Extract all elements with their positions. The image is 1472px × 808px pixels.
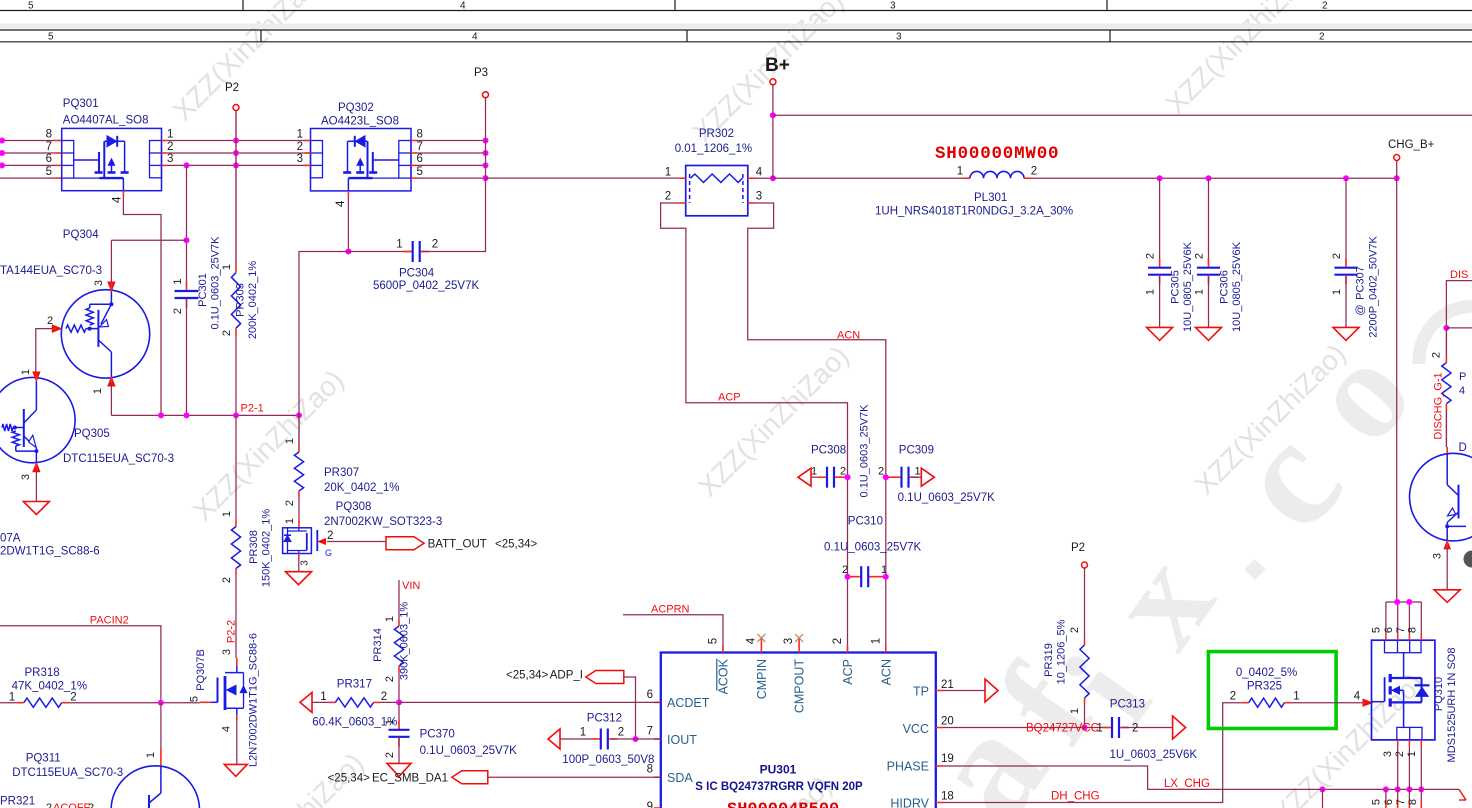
- svg-text:2: 2: [384, 752, 396, 758]
- svg-text:6: 6: [417, 153, 423, 165]
- ground PC307: [1333, 327, 1359, 340]
- svg-text:2: 2: [1431, 352, 1443, 358]
- LX bus junction dots: [1320, 786, 1326, 792]
- svg-text:2: 2: [1145, 253, 1157, 259]
- junction dot IOUT: [633, 736, 639, 742]
- wires left of PQ301: [0, 140, 55, 142]
- arrow into PQ310: [1363, 699, 1372, 706]
- PQ310 top stubs: [1385, 634, 1387, 640]
- svg-text:1: 1: [1406, 751, 1418, 757]
- svg-text:1: 1: [811, 466, 817, 478]
- wire to ground: [1446, 548, 1448, 590]
- P2 vertical wire: [235, 111, 237, 265]
- svg-text:DISCHG_G-1: DISCHG_G-1: [1433, 372, 1445, 439]
- svg-text:L2N7002DW1T1G_SC88-6: L2N7002DW1T1G_SC88-6: [248, 633, 260, 767]
- flag EC_SMB_DA1: [452, 771, 488, 784]
- svg-text:1: 1: [221, 511, 233, 517]
- svg-text:6: 6: [46, 153, 52, 165]
- svg-text:PR317: PR317: [337, 679, 372, 691]
- wire PL301 to CHG_B+: [1031, 177, 1397, 179]
- PQ302 right stubs: [411, 140, 417, 142]
- svg-text:PR308: PR308: [248, 530, 260, 564]
- net PACIN2 wire: [0, 626, 161, 703]
- svg-text:3: 3: [896, 32, 902, 43]
- svg-text:B+: B+: [765, 55, 790, 76]
- svg-text:PR325: PR325: [1247, 681, 1282, 693]
- PQ304 pin arrows: [108, 282, 115, 291]
- svg-text:P2: P2: [1071, 542, 1085, 554]
- svg-text:1: 1: [284, 438, 296, 444]
- svg-text:PQ311: PQ311: [26, 753, 61, 765]
- resistor PR303: [235, 265, 237, 273]
- junction dot ACDET node: [396, 699, 402, 705]
- svg-text:AO4407AL_SO8: AO4407AL_SO8: [63, 115, 149, 127]
- svg-text:PL301: PL301: [974, 192, 1007, 204]
- svg-text:2: 2: [47, 315, 53, 327]
- transistor PQ304: [61, 290, 149, 378]
- svg-text:4: 4: [112, 196, 124, 203]
- svg-text:ACOK: ACOK: [717, 658, 731, 694]
- svg-text:5: 5: [48, 32, 54, 43]
- svg-text:EC_SMB_DA1: EC_SMB_DA1: [372, 773, 448, 785]
- svg-text:2: 2: [381, 691, 387, 703]
- resistor PR3xx (cut): [1445, 328, 1447, 356]
- svg-text:1: 1: [870, 638, 882, 644]
- svg-text:2DW1T1G_SC88-6: 2DW1T1G_SC88-6: [0, 546, 100, 558]
- mosfet PQ310: [1372, 640, 1435, 740]
- svg-text:MDS1525URH 1N SO8: MDS1525URH 1N SO8: [1446, 648, 1458, 763]
- wire PQ304 base to PQ305: [36, 329, 53, 373]
- svg-text:8: 8: [417, 128, 423, 140]
- junction dots on P3 line: [483, 138, 489, 144]
- wire right: [1446, 327, 1472, 329]
- svg-text:1: 1: [221, 264, 233, 270]
- svg-text:PR302: PR302: [699, 128, 734, 140]
- svg-text:ACP: ACP: [718, 392, 741, 404]
- svg-text:ADP_I: ADP_I: [550, 670, 583, 682]
- svg-text:3: 3: [221, 649, 233, 655]
- wire PR302 pin3 to ACN (net ACN): [748, 203, 886, 653]
- svg-text:2: 2: [432, 239, 438, 251]
- svg-text:7: 7: [46, 141, 52, 153]
- PR302 pin stubs: [679, 177, 686, 179]
- junction dot VCC node: [1082, 725, 1088, 731]
- svg-text:4: 4: [746, 637, 758, 644]
- flag BATT_OUT: [386, 537, 424, 550]
- wire gate to BATT_OUT flag: [327, 541, 386, 543]
- wire TP pin21: [943, 690, 985, 692]
- svg-text:PC370: PC370: [420, 729, 455, 741]
- wire PR302 to PL301: [773, 177, 963, 179]
- CHG_B+ rail down to PQ310: [1396, 161, 1398, 602]
- svg-text:5: 5: [188, 696, 200, 702]
- junction dots on P2 line: [233, 138, 239, 144]
- svg-text:2: 2: [1322, 1, 1328, 12]
- svg-text:2: 2: [221, 577, 233, 583]
- svg-text:7: 7: [1395, 627, 1407, 633]
- svg-text:5: 5: [28, 1, 34, 12]
- green highlight box: [1208, 652, 1336, 729]
- svg-text:150K_0402_1%: 150K_0402_1%: [261, 509, 273, 588]
- inductor PL301: [963, 177, 970, 179]
- mosfet PQ302: [311, 129, 412, 191]
- svg-text:SH00000MW00: SH00000MW00: [935, 144, 1059, 164]
- svg-text:3: 3: [297, 153, 303, 165]
- wire SDA: [487, 776, 661, 778]
- net P2-1 bus: [111, 414, 299, 416]
- wire PC304 to P3 line: [420, 178, 486, 251]
- svg-text:S IC BQ24737RGRR VQFN 20P: S IC BQ24737RGRR VQFN 20P: [695, 781, 863, 793]
- resistor PR317: [300, 692, 312, 712]
- svg-text:PC308: PC308: [811, 445, 846, 457]
- right pin stubs: [936, 690, 943, 692]
- svg-text:4: 4: [460, 1, 466, 12]
- wires PQ301 to PQ302: [162, 140, 167, 142]
- svg-text:CMPIN: CMPIN: [755, 659, 769, 699]
- resistor PR307: [298, 445, 300, 452]
- svg-text:2: 2: [88, 802, 94, 808]
- svg-text:1: 1: [1293, 691, 1299, 703]
- svg-text:21: 21: [941, 679, 954, 691]
- svg-text:0.1U_0603_25V7K: 0.1U_0603_25V7K: [420, 745, 518, 757]
- svg-text:PHASE: PHASE: [887, 760, 929, 774]
- gate stub: [200, 701, 211, 703]
- svg-text:19: 19: [941, 753, 954, 765]
- svg-text:DIS: DIS: [1450, 269, 1468, 281]
- svg-text:2: 2: [1331, 253, 1343, 259]
- svg-text:7: 7: [417, 141, 423, 153]
- wire HIDRV pin18 (net DH_CHG): [943, 703, 1242, 803]
- svg-text:SDA: SDA: [667, 771, 693, 785]
- svg-text:3: 3: [783, 638, 795, 644]
- stubs below LX bus to next part (cut): [1385, 789, 1387, 801]
- svg-text:PC313: PC313: [1110, 699, 1145, 711]
- svg-text:1: 1: [297, 128, 303, 140]
- svg-text:P3: P3: [474, 67, 488, 79]
- svg-text:8: 8: [46, 128, 52, 140]
- transistor PQ305: [0, 377, 75, 462]
- svg-text:PQ304: PQ304: [63, 229, 99, 241]
- svg-text:<25,34>: <25,34>: [328, 773, 370, 785]
- wire row5 to PR302: [486, 177, 679, 179]
- svg-text:0.1U_0603_25V7K: 0.1U_0603_25V7K: [898, 492, 996, 504]
- arrow TP: [985, 679, 998, 702]
- wire PHASE pin19 (net LX_CHG): [943, 766, 1459, 789]
- wire bus corner down to PR307: [298, 415, 300, 445]
- svg-text:IOUT: IOUT: [667, 733, 697, 747]
- ground PC305: [1147, 327, 1173, 340]
- svg-text:8: 8: [1407, 799, 1419, 805]
- svg-text:PC304: PC304: [399, 268, 435, 280]
- ground for PC370: [387, 763, 411, 776]
- svg-text:2: 2: [832, 638, 844, 644]
- capacitor PC308: [798, 468, 811, 486]
- junction dots at left edge: [0, 138, 5, 144]
- svg-text:200K_0402_1%: 200K_0402_1%: [247, 261, 259, 340]
- PQ302 left stubs: [305, 140, 311, 142]
- no-connect pins 4 and 3: [760, 638, 762, 646]
- ic PU301 BQ24737: [661, 653, 936, 808]
- svg-text:1: 1: [914, 466, 920, 478]
- svg-text:5: 5: [708, 638, 720, 644]
- svg-text:2: 2: [840, 466, 846, 478]
- capacitor PC304: [403, 251, 413, 253]
- svg-text:CHG_B+: CHG_B+: [1388, 139, 1435, 151]
- wire PQ304 pin1 to bus: [110, 383, 112, 415]
- svg-text:3: 3: [756, 190, 762, 202]
- svg-text:PR318: PR318: [25, 667, 60, 679]
- junction dot: [345, 249, 351, 255]
- wire PQ304 pin3 up: [110, 240, 112, 283]
- svg-text:ACP: ACP: [841, 659, 855, 685]
- svg-text:PR314: PR314: [372, 628, 384, 662]
- svg-text:PR319: PR319: [1043, 643, 1055, 677]
- svg-text:DTC115EUA_SC70-3: DTC115EUA_SC70-3: [12, 767, 123, 779]
- svg-text:2: 2: [1230, 691, 1236, 703]
- svg-text:1: 1: [92, 388, 104, 394]
- capacitor PC306: [1208, 178, 1210, 265]
- svg-text:4: 4: [221, 726, 233, 732]
- wire PR307 to PQ308: [298, 498, 300, 520]
- svg-text:SH00004B500: SH00004B500: [727, 801, 839, 808]
- svg-text:5: 5: [417, 166, 423, 178]
- svg-text:2: 2: [878, 466, 884, 478]
- svg-text:0.1U_0603_25V7K: 0.1U_0603_25V7K: [824, 542, 922, 554]
- svg-text:1: 1: [20, 369, 32, 375]
- wire ADP_I to IOUT: [624, 677, 636, 739]
- svg-text:2: 2: [1132, 723, 1138, 735]
- gray dot at right edge: [1464, 551, 1472, 568]
- svg-text:100P_0603_50V8: 100P_0603_50V8: [562, 754, 654, 766]
- svg-text:PU301: PU301: [760, 763, 797, 777]
- wires PQ302 to P3 line: [417, 140, 486, 142]
- svg-text:2: 2: [1394, 751, 1406, 757]
- svg-text:7: 7: [647, 726, 653, 738]
- mosfet PQ308: [283, 528, 312, 554]
- svg-text:2N7002KW_SOT323-3: 2N7002KW_SOT323-3: [324, 516, 442, 528]
- svg-text:2: 2: [1031, 166, 1037, 178]
- svg-text:2: 2: [665, 190, 671, 202]
- resistor PR318: [0, 702, 17, 704]
- svg-text:2: 2: [384, 676, 396, 682]
- svg-text:4: 4: [472, 32, 478, 43]
- svg-text:4: 4: [756, 166, 763, 178]
- svg-text:PC305: PC305: [1170, 270, 1182, 304]
- svg-text:ACOFF: ACOFF: [53, 802, 91, 808]
- junction dot: [184, 237, 190, 243]
- svg-text:10U_0805_25V6K: 10U_0805_25V6K: [1231, 241, 1243, 332]
- B+ top rail: [773, 114, 1472, 116]
- stub below LX bus: [1322, 789, 1324, 808]
- svg-text:<25,34>: <25,34>: [506, 670, 548, 682]
- svg-text:3: 3: [1432, 553, 1444, 559]
- svg-text:10_1206_5%: 10_1206_5%: [1055, 619, 1067, 684]
- svg-text:3: 3: [890, 1, 896, 12]
- svg-text:2: 2: [327, 530, 333, 542]
- sheet border: [0, 10, 1472, 12]
- small red mark at right end: [1459, 789, 1466, 800]
- capacitor PC307: [1345, 178, 1347, 265]
- ground for PQ307B: [236, 715, 238, 720]
- PQ305 pin arrows: [33, 372, 40, 381]
- svg-text:5: 5: [1371, 799, 1383, 805]
- svg-text:1: 1: [1097, 723, 1103, 735]
- svg-text:PC309: PC309: [899, 445, 934, 457]
- svg-text:ACPRN: ACPRN: [651, 604, 690, 616]
- svg-text:2: 2: [842, 564, 848, 576]
- PQ310 top bus: [1386, 601, 1421, 603]
- svg-text:PQ305: PQ305: [74, 428, 110, 440]
- svg-text:1: 1: [320, 691, 326, 703]
- svg-text:TA144EUA_SC70-3: TA144EUA_SC70-3: [0, 265, 102, 277]
- svg-text:TP: TP: [913, 685, 929, 699]
- svg-text:D: D: [1459, 442, 1467, 454]
- ground for PQ308: [298, 554, 300, 559]
- svg-text:2: 2: [46, 802, 52, 808]
- svg-text:1: 1: [1069, 708, 1081, 714]
- current sense resistor PR302: [686, 166, 748, 216]
- svg-text:20: 20: [941, 716, 954, 728]
- svg-text:PC307: PC307: [1355, 266, 1367, 300]
- chip top pin stubs: [722, 646, 724, 653]
- bus junction dots: [158, 412, 164, 418]
- svg-text:1: 1: [580, 727, 586, 739]
- PQ301 pin4 wire: [122, 191, 124, 197]
- arrow VCC out: [1173, 716, 1186, 739]
- svg-text:PQ302: PQ302: [338, 102, 374, 114]
- svg-text:ACDET: ACDET: [667, 696, 710, 710]
- svg-text:7: 7: [1395, 799, 1407, 805]
- svg-text:DH_CHG: DH_CHG: [1051, 791, 1100, 803]
- svg-text:3: 3: [167, 153, 173, 165]
- net ACPRN wire: [623, 615, 723, 653]
- capacitor PC309: [886, 476, 895, 478]
- svg-text:HIDRV: HIDRV: [890, 797, 929, 808]
- svg-text:5600P_0402_25V7K: 5600P_0402_25V7K: [373, 280, 479, 292]
- wire ACDET to chip: [399, 701, 661, 703]
- svg-text:VCC: VCC: [903, 722, 929, 736]
- svg-text:20K_0402_1%: 20K_0402_1%: [324, 482, 399, 494]
- svg-text:1: 1: [1194, 289, 1206, 295]
- wire VCC pin20 to PC313: [943, 727, 1109, 729]
- svg-text:2: 2: [1069, 627, 1081, 633]
- P3 vertical wire: [485, 98, 487, 178]
- svg-text:0.1U_0603_25V7K: 0.1U_0603_25V7K: [859, 404, 871, 498]
- transistor DTA (cut at edge): [1410, 453, 1472, 541]
- svg-text:3: 3: [93, 280, 105, 286]
- svg-text:PC301: PC301: [197, 273, 209, 307]
- svg-text:4: 4: [1354, 691, 1361, 703]
- svg-text:6: 6: [647, 689, 653, 701]
- svg-text:1: 1: [384, 616, 396, 622]
- svg-text:1UH_NRS4018T1R0NDGJ_3.2A_30%: 1UH_NRS4018T1R0NDGJ_3.2A_30%: [875, 206, 1073, 218]
- svg-text:2200P_0402_50V7K: 2200P_0402_50V7K: [1368, 236, 1380, 338]
- svg-text:3: 3: [300, 560, 311, 566]
- svg-text:2: 2: [172, 308, 184, 314]
- capacitor PC305: [1159, 178, 1161, 265]
- svg-text:PC306: PC306: [1219, 270, 1231, 304]
- svg-text:PC312: PC312: [587, 713, 622, 725]
- svg-text:4: 4: [335, 200, 347, 207]
- svg-text:PR321: PR321: [0, 796, 35, 808]
- svg-text:1: 1: [1331, 289, 1343, 295]
- svg-text:1: 1: [384, 719, 396, 725]
- svg-text:PQ307B: PQ307B: [195, 649, 207, 691]
- wire PC301 branch: [186, 165, 188, 287]
- resistor PR308: [235, 520, 237, 527]
- svg-text:LX_CHG: LX_CHG: [1164, 778, 1210, 790]
- svg-text:2: 2: [167, 141, 173, 153]
- svg-text:AO4423L_SO8: AO4423L_SO8: [321, 116, 399, 128]
- svg-text:10U_0805_25V6K: 10U_0805_25V6K: [1182, 241, 1194, 332]
- svg-text:BATT_OUT: BATT_OUT: [428, 539, 487, 551]
- svg-text:0.1U_0603_25V7K: 0.1U_0603_25V7K: [210, 236, 222, 330]
- capacitor PC312: [548, 729, 560, 749]
- wire to transistor: [1445, 410, 1447, 447]
- svg-text:PQ308: PQ308: [336, 501, 372, 513]
- svg-text:VIN: VIN: [402, 580, 420, 592]
- svg-text:1: 1: [396, 239, 402, 251]
- capacitor PC301: [186, 282, 188, 292]
- svg-text:PR303: PR303: [235, 283, 247, 317]
- wire P2 line below bus: [235, 415, 237, 519]
- B+ vertical wire: [772, 85, 774, 178]
- ground for PQ305: [35, 470, 37, 502]
- left pin stubs: [654, 701, 661, 703]
- svg-text:390K_0603_1%: 390K_0603_1%: [398, 602, 410, 681]
- capacitor PC310: [848, 576, 859, 578]
- junction dot: [1443, 325, 1449, 331]
- svg-text:G: G: [325, 548, 332, 558]
- svg-text:2: 2: [618, 727, 624, 739]
- svg-text:2: 2: [1194, 253, 1206, 259]
- svg-text:P2: P2: [225, 82, 239, 94]
- junction dot B+ rail: [770, 112, 776, 118]
- svg-text:1: 1: [172, 278, 184, 284]
- svg-text:PR307: PR307: [324, 467, 359, 479]
- svg-text:1: 1: [145, 752, 157, 758]
- svg-text:3: 3: [20, 474, 32, 480]
- svg-text:CMPOUT: CMPOUT: [793, 659, 807, 714]
- svg-text:1: 1: [284, 518, 296, 524]
- junction dot at B+: [770, 175, 776, 181]
- svg-text:2: 2: [284, 500, 296, 506]
- wire to PC304 and down: [299, 252, 413, 416]
- svg-text:1: 1: [9, 691, 15, 703]
- svg-text:P: P: [1459, 371, 1466, 383]
- wire PR308 to PQ307B: [235, 575, 237, 658]
- PQ310 bottom stubs: [1397, 740, 1399, 746]
- svg-text:PQ301: PQ301: [63, 98, 99, 110]
- node dot PC301 branch: [184, 162, 190, 168]
- ground right transistor: [1434, 590, 1460, 603]
- svg-text:6: 6: [1383, 627, 1395, 633]
- svg-text:1U_0603_25V6K: 1U_0603_25V6K: [1110, 749, 1198, 761]
- svg-text:5: 5: [1371, 627, 1383, 633]
- wire down to PQ311: [160, 703, 162, 748]
- wire PQ304 pin3 to PC301 line: [111, 239, 186, 241]
- mosfet PQ301: [62, 128, 162, 190]
- wire P2 down: [1084, 568, 1086, 638]
- flag ADP_I: [586, 671, 624, 684]
- svg-text:@: @: [1355, 304, 1367, 315]
- svg-text:2: 2: [70, 691, 76, 703]
- junction dot PR318 row: [158, 700, 164, 706]
- svg-text:1: 1: [665, 166, 671, 178]
- svg-text:1: 1: [1145, 289, 1157, 295]
- svg-text:9: 9: [647, 801, 653, 808]
- svg-text:3: 3: [1382, 751, 1394, 757]
